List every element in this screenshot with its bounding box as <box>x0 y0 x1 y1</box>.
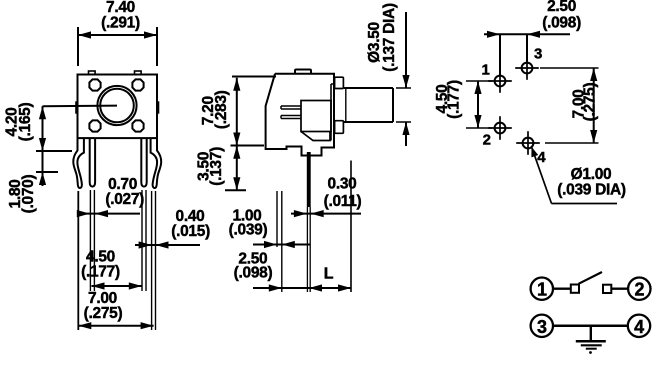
svg-text:(.177): (.177) <box>445 80 462 119</box>
svg-text:Ø1.00: Ø1.00 <box>571 166 612 183</box>
svg-text:3: 3 <box>537 317 547 337</box>
svg-text:(.137): (.137) <box>208 147 225 186</box>
svg-text:(.070): (.070) <box>20 175 37 214</box>
svg-text:(.027): (.027) <box>105 191 144 208</box>
svg-text:(.039): (.039) <box>229 222 268 239</box>
svg-text:2: 2 <box>483 132 491 149</box>
svg-text:0.30: 0.30 <box>328 176 357 193</box>
svg-text:(.283): (.283) <box>213 90 230 129</box>
svg-text:2.50: 2.50 <box>547 0 576 15</box>
svg-text:4: 4 <box>634 317 644 337</box>
svg-text:1: 1 <box>537 280 547 300</box>
svg-text:(.165): (.165) <box>17 103 34 142</box>
svg-text:(.177): (.177) <box>81 264 120 281</box>
svg-text:4: 4 <box>537 149 546 166</box>
svg-text:2: 2 <box>634 280 644 300</box>
svg-text:(.275): (.275) <box>581 83 598 122</box>
svg-text:(.039 DIA): (.039 DIA) <box>557 182 626 199</box>
svg-text:(.098): (.098) <box>234 265 273 282</box>
svg-text:(.015): (.015) <box>171 223 210 240</box>
svg-text:(.011): (.011) <box>324 193 362 210</box>
svg-text:L: L <box>324 266 334 283</box>
svg-text:(.275): (.275) <box>84 305 123 322</box>
svg-text:(.291): (.291) <box>101 15 140 32</box>
svg-text:(.098): (.098) <box>542 15 581 32</box>
svg-text:3: 3 <box>534 46 542 63</box>
svg-text:1: 1 <box>481 62 489 79</box>
svg-text:(.137 DIA): (.137 DIA) <box>381 3 398 72</box>
